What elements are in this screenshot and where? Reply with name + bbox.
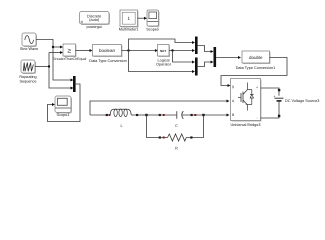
- converter Data Type Conversion1 (double): [236, 51, 276, 70]
- wire Sine Wave to GreaterThanOrEqual and scope mux: [36, 40, 74, 82]
- svg-text:double: double: [249, 55, 263, 60]
- converter Data Type Conversion (boolean): [89, 45, 127, 63]
- scope Scope1: [55, 96, 72, 117]
- igbt: [247, 83, 249, 90]
- multimeter Multimeter1: [119, 10, 139, 31]
- svg-text:GreaterThanOrEqual: GreaterThanOrEqual: [53, 57, 87, 61]
- svg-text:Scope1: Scope1: [57, 113, 70, 117]
- svg-text:DC Voltage Source3: DC Voltage Source3: [285, 99, 319, 103]
- svg-text:Multimeter1: Multimeter1: [119, 27, 139, 31]
- source Sine Wave: [20, 33, 38, 51]
- powergui block: [80, 12, 111, 30]
- svg-text:(auto): (auto): [89, 17, 100, 22]
- wire node J2 to bridge terminal B: [204, 114, 230, 117]
- diode: [248, 89, 252, 91]
- svg-text:C: C: [175, 124, 178, 128]
- svg-text:g: g: [232, 84, 234, 88]
- node J2: [202, 114, 204, 116]
- svg-text:+: +: [256, 85, 258, 89]
- svg-text:R: R: [175, 146, 178, 150]
- capacitor C: [147, 111, 204, 128]
- mux M1 (top): [195, 37, 214, 55]
- svg-text:≥: ≥: [67, 48, 71, 55]
- wire mux M4 to Scope1: [48, 84, 81, 122]
- svg-text:Scope5: Scope5: [146, 27, 159, 31]
- svg-text:powergui: powergui: [86, 25, 102, 29]
- svg-text:Data Type Conversion: Data Type Conversion: [89, 59, 127, 63]
- mux M4 (scope mux): [73, 76, 76, 92]
- svg-text:L: L: [120, 124, 122, 128]
- inductor L: [90, 109, 147, 128]
- mux M2 (bottom): [195, 58, 214, 76]
- wire rail to bridge terminal A: [90, 100, 230, 116]
- wire Repeating Sequence to GreaterThanOrEqual and scope mux: [35, 51, 74, 90]
- wire Data Type Conversion1 to bridge gate g: [221, 58, 287, 88]
- svg-text:Operator: Operator: [156, 63, 172, 67]
- wire Logical Operator output branches to mux M1 and mux M2: [169, 49, 195, 64]
- wire Multimeter1 to Scope5: [138, 17, 148, 20]
- logical operator Logical Operator (NOT): [156, 45, 172, 67]
- relational operator GreaterThanOrEqual: [53, 44, 87, 61]
- wire Data Type Conversion output with branches to Logical Operator, mux M1, mux M2: [122, 39, 196, 73]
- svg-text:Repeating: Repeating: [19, 75, 36, 79]
- source Repeating Sequence: [19, 60, 36, 84]
- node J1: [145, 114, 147, 116]
- wire GreaterThanOrEqual to Data Type Conversion: [76, 49, 93, 52]
- bridge Universal Bridge3: [231, 79, 262, 128]
- resistor R parallel branch: [147, 115, 204, 150]
- svg-text:boolean: boolean: [99, 48, 116, 53]
- svg-text:+: +: [274, 94, 276, 98]
- svg-text:Data Type Conversion1: Data Type Conversion1: [236, 66, 276, 70]
- svg-text:Sequence: Sequence: [19, 80, 36, 84]
- svg-text:Universal Bridge3: Universal Bridge3: [231, 123, 261, 127]
- svg-text:Logical: Logical: [157, 58, 169, 62]
- svg-text:Sine Wave: Sine Wave: [20, 47, 38, 51]
- svg-text:NOT: NOT: [160, 49, 167, 53]
- mux M3 (combiner): [214, 47, 242, 67]
- source DC Voltage Source3: [261, 88, 320, 118]
- scope Scope5: [146, 10, 159, 31]
